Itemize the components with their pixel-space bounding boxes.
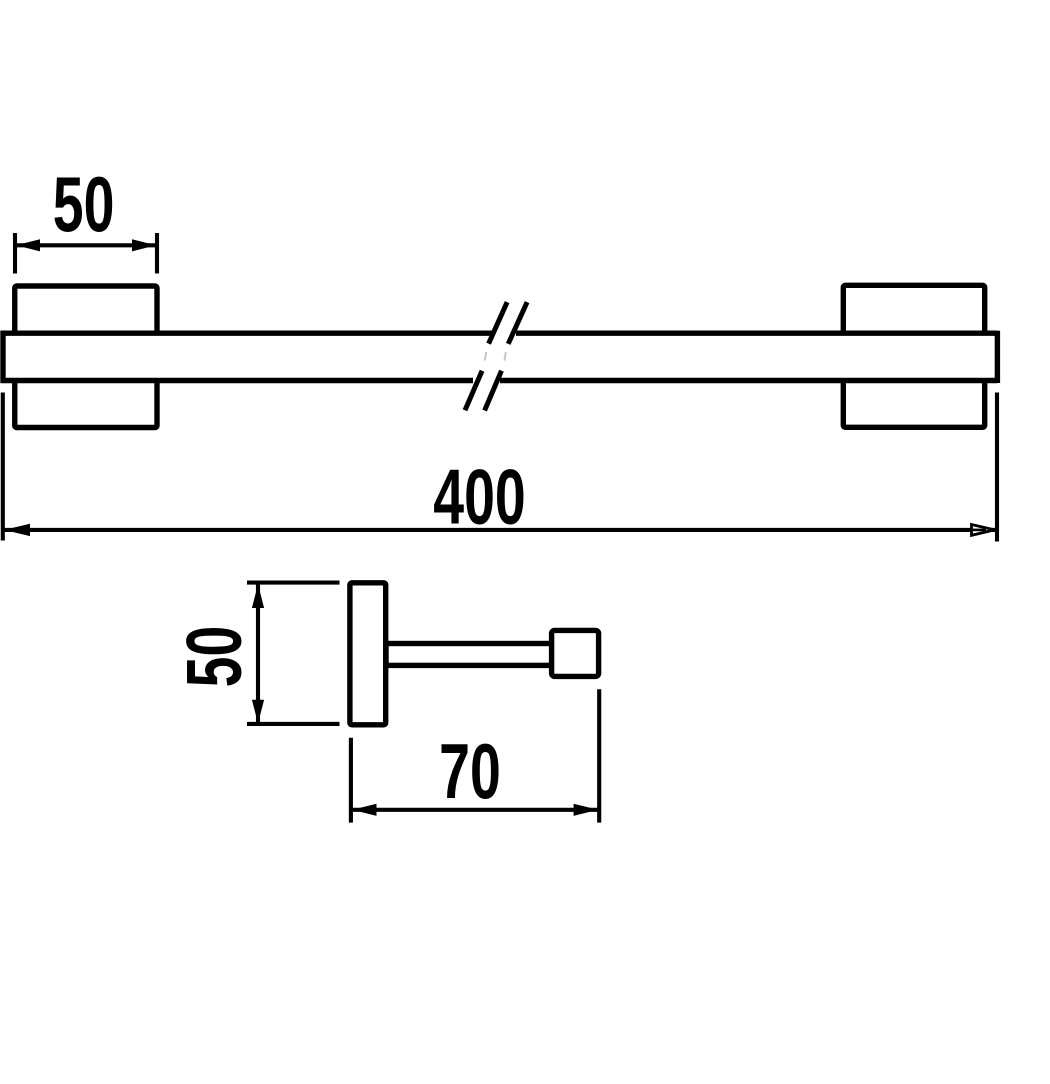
wall plate (side view): [350, 583, 386, 725]
bar bottom edge left segment: [1, 378, 474, 383]
dim 400: right arrow (open): [972, 525, 995, 536]
bar top edge right segment: [516, 331, 997, 336]
break mark slash top 1: [489, 302, 508, 344]
dim 50 top: right arrow: [132, 239, 156, 251]
dim 400: right extension line: [995, 393, 999, 542]
svg-text:50: 50: [53, 162, 115, 248]
svg-text:70: 70: [439, 729, 501, 815]
dim 50 side: top extension line: [247, 581, 340, 585]
dim 50 top: dimension line: [15, 243, 157, 247]
bar bottom edge right segment: [500, 378, 997, 383]
break mark slash bottom 2: [485, 371, 502, 411]
dim 50 top: left extension line: [13, 233, 17, 274]
bar left edge: [0, 331, 5, 383]
end knob (side view): [552, 630, 599, 676]
break mark slash top 2: [508, 302, 527, 344]
dim 70: right arrow: [574, 804, 598, 816]
svg-text:50: 50: [171, 626, 257, 688]
dim 50 top: right extension line: [155, 233, 159, 274]
ghost dash 2: [505, 352, 506, 361]
dim 70: dimension line: [351, 808, 599, 812]
bar body (white fill masks bracket edges): [3, 333, 997, 380]
arm (side view): [386, 644, 554, 666]
dim 400: left arrow (filled): [4, 524, 30, 536]
wall bracket right (front view): [843, 285, 984, 427]
dim 50 side: down arrow: [252, 700, 264, 724]
dim 400: dimension line: [3, 528, 995, 532]
dim 50 top: left arrow: [16, 239, 40, 251]
dim 70: left arrow: [352, 804, 376, 816]
dim 50 side: dimension line: [256, 583, 260, 724]
dim 70: right extension line: [597, 689, 601, 822]
ghost dash 1: [485, 352, 486, 361]
bar right edge: [995, 331, 1000, 383]
dim 50 side: up arrow: [252, 584, 264, 608]
svg-text:400: 400: [433, 454, 525, 540]
bar top edge left segment: [1, 331, 494, 336]
break mark slash bottom 1: [465, 371, 482, 411]
dim 50 side: bottom extension line: [247, 722, 340, 726]
dim 70: left extension line: [349, 738, 353, 823]
dim 400: left extension line: [1, 393, 5, 541]
dim 400: line stub inside open arrow: [972, 529, 987, 532]
wall bracket left (front view): [15, 286, 157, 428]
